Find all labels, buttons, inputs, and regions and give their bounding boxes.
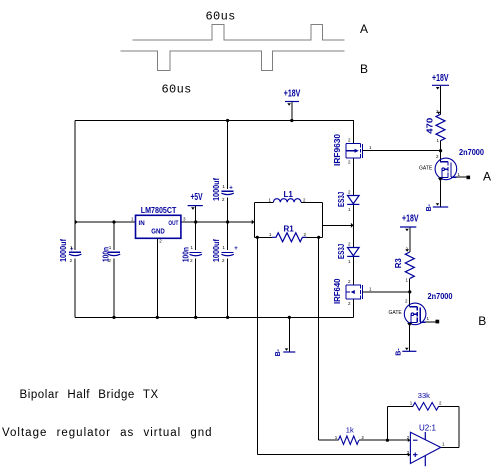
svg-text:IN: IN <box>139 220 146 227</box>
pin arrow op-amp inverting input <box>408 438 411 442</box>
wire vertical x114 <box>113 222 115 317</box>
svg-text:GATE: GATE <box>389 310 403 316</box>
wire feedback left vertical <box>386 406 388 440</box>
wire op-amp output <box>441 446 459 448</box>
resistor R4 33k <box>410 391 442 410</box>
junction bottom rail x228 <box>226 316 229 319</box>
svg-text:GATE: GATE <box>419 166 433 172</box>
voltage regulator U-LM7805CT box <box>131 205 186 244</box>
wire +18V to R470 <box>439 86 441 114</box>
L1/R1 box left vertical <box>253 202 255 237</box>
junction gate Q2 wire <box>408 290 411 293</box>
junction top rail x228 <box>226 119 229 122</box>
power +18V right mid <box>400 226 416 228</box>
junction mid rail x195.7 <box>194 220 197 223</box>
pin arrow above B- bar 1 <box>436 203 440 205</box>
diode D2 ES3J <box>337 242 359 265</box>
wire Q4 gate to port B <box>426 321 436 323</box>
resistor R470 <box>426 109 446 143</box>
wire drop right x318.7 <box>318 237 320 440</box>
power +5V <box>188 205 203 207</box>
svg-text:R3: R3 <box>394 258 403 269</box>
svg-text:2n7000: 2n7000 <box>459 148 485 157</box>
wire +18V to R3 <box>409 228 411 252</box>
wire R3 to Q4 <box>409 278 411 306</box>
capacitor C1 1000uf <box>59 239 82 263</box>
junction bottom rail x195.7 <box>194 316 197 319</box>
wire +18V stub <box>291 102 293 121</box>
mosfet Q1 IRF9630 <box>346 143 363 158</box>
waveform A trace <box>133 24 345 40</box>
pin arrow op-amp non-inverting input <box>408 453 411 457</box>
port B terminal <box>436 320 440 324</box>
junction mid rail left end <box>75 220 78 225</box>
mosfet Q2 IRF640 <box>346 285 363 300</box>
svg-text:OUT: OUT <box>168 220 178 227</box>
svg-text:B: B <box>360 62 368 76</box>
wire 33k row <box>387 405 458 407</box>
op-amp U2:1 <box>407 424 445 467</box>
svg-text:1000uf: 1000uf <box>212 178 221 201</box>
capacitor C2 100n <box>102 245 121 263</box>
capacitor C3 100n <box>182 245 202 263</box>
svg-text:ES3J: ES3J <box>337 244 346 259</box>
power B- port 2 <box>396 348 417 356</box>
capacitor C5 1000uf upper <box>212 178 234 202</box>
svg-text:IRF9630: IRF9630 <box>333 133 342 166</box>
power B- port 3 <box>275 348 295 356</box>
waveform B trace <box>120 51 344 71</box>
svg-text:ES3J: ES3J <box>337 192 346 207</box>
diode D1 ES3J <box>337 190 359 213</box>
svg-text:B-: B- <box>426 203 433 211</box>
svg-text:GND: GND <box>151 226 165 235</box>
svg-text:60us: 60us <box>162 83 192 97</box>
svg-text:A: A <box>360 22 368 36</box>
power +18V top middle <box>285 101 299 103</box>
pin arrow at R3 top pin <box>405 249 409 252</box>
svg-text:B: B <box>478 314 486 328</box>
wire tank to diode node <box>323 224 354 226</box>
wire feedback right vertical <box>458 406 460 447</box>
inductor L1 <box>269 190 307 203</box>
pin arrow at R470 top pin <box>437 112 441 115</box>
junction R1 row x318.7 <box>317 236 320 239</box>
wire non-inverting input row <box>257 454 410 456</box>
svg-text:B-: B- <box>396 348 403 356</box>
port A terminal <box>467 176 471 180</box>
power +18V top right <box>432 84 449 86</box>
svg-text:60us: 60us <box>206 10 236 24</box>
svg-text:1000uf: 1000uf <box>59 239 68 262</box>
junction mid rail x114 <box>112 220 115 223</box>
wire gate Q1 <box>363 150 441 152</box>
svg-text:+18V: +18V <box>432 73 449 84</box>
junction gate Q1 wire <box>439 149 442 152</box>
junction diode node <box>351 223 354 228</box>
wire left vertical x75 <box>74 121 76 318</box>
svg-text:A: A <box>483 169 491 183</box>
L1/R1 box right vertical <box>322 202 324 237</box>
junction bottom rail x114 <box>112 316 115 319</box>
resistor R1 <box>269 225 307 242</box>
pin arrow below +18V bar right mid <box>405 229 409 232</box>
wire R470 to Q3 <box>439 141 441 162</box>
junction top rail / +18V <box>290 119 293 122</box>
svg-text:+: + <box>234 246 238 252</box>
svg-text:Bipolar Half Bridge TX: Bipolar Half Bridge TX <box>20 389 159 401</box>
transistor Q3 2n7000 <box>435 158 457 180</box>
junction R1 row x257.3 <box>256 236 259 239</box>
wire drop left x257.3 <box>256 237 258 454</box>
svg-text:R1: R1 <box>284 225 295 234</box>
junction mid rail to box corner <box>252 220 255 225</box>
capacitor C4 1000uf lower <box>212 239 238 263</box>
svg-text:Voltage regulator as virtual g: Voltage regulator as virtual gnd <box>2 427 213 439</box>
pin arrow above B- bar 3 <box>285 348 289 350</box>
svg-text:L1: L1 <box>284 190 294 199</box>
pin arrow below +18V bar top right <box>436 87 440 90</box>
svg-text:+18V: +18V <box>284 89 301 100</box>
svg-text:1000uf: 1000uf <box>212 239 221 262</box>
wire mid rail <box>75 221 254 223</box>
wire regulator GND pin <box>156 238 158 317</box>
wire top rail <box>75 120 354 122</box>
svg-text:1k: 1k <box>346 426 354 435</box>
pin arrow above B- bar 2 <box>405 348 409 350</box>
svg-text:+18V: +18V <box>402 213 419 224</box>
power B- port 1 <box>426 203 448 211</box>
resistor R3 <box>394 247 414 283</box>
svg-text:LM7805CT: LM7805CT <box>141 205 177 215</box>
pin arrow below +18V bar top middle <box>287 103 291 106</box>
wire diode chain vertical <box>352 121 354 318</box>
transistor Q4 2n7000 <box>404 303 426 325</box>
wire gate Q2 <box>363 291 410 293</box>
pin arrow below +5V bar <box>191 207 195 210</box>
svg-text:B-: B- <box>275 348 282 356</box>
wire +5V stub / vertical x195.7 <box>195 206 197 317</box>
svg-text:2n7000: 2n7000 <box>428 292 454 301</box>
svg-text:33k: 33k <box>418 391 430 400</box>
svg-text:+5V: +5V <box>191 192 203 203</box>
junction bottom rail B- stub <box>288 316 291 319</box>
wire R1 row <box>254 236 322 238</box>
wire Q3 source down <box>439 181 441 207</box>
junction feedback/inverting input <box>386 439 389 442</box>
wire L1 row <box>254 201 322 203</box>
wire vertical x228 <box>227 121 229 318</box>
svg-text:470: 470 <box>426 117 435 134</box>
resistor R2 1k <box>335 426 365 445</box>
wire bottom rail <box>75 316 353 318</box>
junction mid rail x228 <box>226 220 229 223</box>
svg-text:IRF640: IRF640 <box>333 278 342 304</box>
wire Q4 source down <box>409 326 411 351</box>
svg-text:U2:1: U2:1 <box>419 424 436 433</box>
wire bottom rail B- stub <box>288 317 290 352</box>
junction bottom rail x157.3 <box>156 316 159 319</box>
svg-text:+: + <box>229 185 233 191</box>
wire Q3 gate to port A <box>457 176 468 178</box>
wire 1k row <box>319 439 411 441</box>
